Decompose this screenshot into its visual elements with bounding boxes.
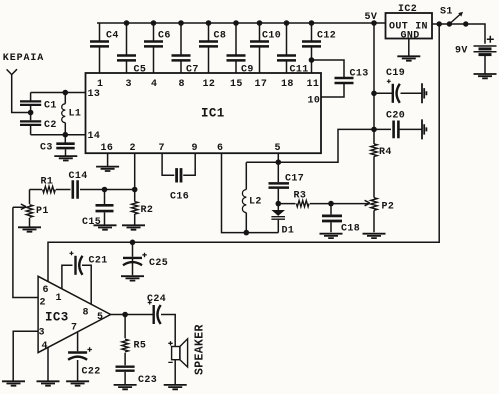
svg-text:C19: C19 [386,68,405,79]
wire pin14 [31,134,86,136]
wire battery to ground [484,55,486,74]
svg-text:6: 6 [217,143,223,154]
svg-text:R3: R3 [294,191,307,202]
capacitor C18 [322,216,342,221]
svg-text:10: 10 [308,96,321,107]
svg-text:3: 3 [126,79,132,90]
wire C15 stems [104,190,106,225]
wire D1 stems [277,204,279,233]
svg-text:KEPAIA: KEPAIA [3,53,44,64]
svg-text:8: 8 [179,79,185,90]
svg-text:R5: R5 [134,341,147,352]
svg-text:C5: C5 [134,64,147,75]
capacitor C13 [335,78,354,83]
wire IC3 output pin5 [111,315,176,347]
wire C18 stems [330,204,332,233]
svg-text:1: 1 [56,293,62,304]
wire P2 wiper arrow shaft [331,203,370,205]
capacitor C2 [20,121,41,125]
ground under P1 [18,227,41,231]
svg-text:GND: GND [401,31,420,42]
wire C13 branch pin10 [312,60,345,97]
wire pin5 node right up to C20 node [278,129,374,162]
wire P1 wiper down to IC3 pin2 [13,207,38,297]
svg-text:R4: R4 [379,147,392,158]
capacitor C11 [277,55,296,60]
svg-text:6: 6 [43,285,49,296]
capacitor C16 [177,168,181,182]
junction C19 [371,91,377,97]
svg-text:C8: C8 [214,31,227,42]
svg-text:12: 12 [203,79,216,90]
junction IC3 output R5 [122,312,128,318]
svg-text:16: 16 [101,143,114,154]
svg-text:C13: C13 [350,68,369,79]
svg-text:5V: 5V [365,12,378,23]
wire C10 branch pin17 [259,23,261,73]
junction L1 top [63,90,69,96]
svg-text:SPEAKER: SPEAKER [194,324,207,375]
resistor R4 [371,144,377,157]
junction rail C7 [178,20,184,26]
svg-text:IC3: IC3 [45,311,69,325]
IC2 regulator box [386,13,433,39]
resistor R2 [132,202,138,215]
svg-text:C15: C15 [82,217,101,228]
diode D1 [271,210,285,216]
svg-text:C3: C3 [40,143,53,154]
resistor R3 [296,200,309,206]
ground under C23 [114,385,137,389]
junction R3 C18 P2 [328,201,334,207]
junction rail C10 [257,20,263,26]
ground under R2 [122,225,145,229]
wire C12 branch pin11 [311,23,313,73]
svg-text:D1: D1 [282,226,295,237]
wire pin5 down [277,153,279,162]
wire C6 branch pin4 [153,23,155,73]
capacitor C15 [96,205,114,211]
wire IC3 pin4 to ground [47,347,49,381]
wire pin13 [31,92,86,94]
junction C25 supply [130,240,136,246]
junction rail C11 [284,20,290,26]
svg-text:C10: C10 [262,31,281,42]
svg-text:7: 7 [71,323,77,334]
op-amp IC3 triangle [38,276,111,352]
wire C3 stem [64,135,66,143]
wire C8 branch pin12 [208,23,210,73]
svg-text:C17: C17 [285,174,304,185]
wire C7 branch pin8 [180,23,182,73]
wire R2 stems [134,190,136,225]
wire P1 top and bottom [29,190,31,227]
capacitor C19 [387,79,400,103]
wire C9 branch pin15 [235,23,237,73]
svg-text:C9: C9 [241,64,254,75]
wire L1 stems [64,93,66,135]
junction rail C5 [124,20,130,26]
capacitor C5 [117,55,136,60]
capacitor C6 [144,41,163,46]
svg-text:3: 3 [39,328,45,339]
wire C17 stems [277,162,279,203]
wire IC2 to S1 and battery [432,24,485,44]
svg-text:C2: C2 [44,120,57,131]
wire C5 branch pin3 [126,23,128,73]
svg-text:C22: C22 [82,367,101,378]
junction pin5 L2 [276,159,282,165]
wire pin2 down [134,153,136,189]
svg-text:P2: P2 [382,202,395,213]
capacitor C7 [172,55,191,60]
capacitor C24 [148,301,161,325]
wire top supply rail [97,22,386,24]
svg-text:R1: R1 [41,177,54,188]
junction pin11 C13 [309,57,315,63]
wire IC3 pin3 stub to ground [13,331,38,381]
ground right of C20 [422,119,426,139]
junction rail C9 [233,20,239,26]
node 5V [371,20,377,26]
svg-text:C25: C25 [149,258,168,269]
svg-text:C4: C4 [106,31,119,42]
capacitor C23 [116,367,135,371]
capacitor C10 [250,41,269,46]
ground under C18 [320,234,343,238]
capacitor C17 [269,183,290,187]
wire IC3 pin1 to C21 loop [62,265,91,304]
svg-text:2: 2 [40,298,46,309]
junction L2 bottom [244,230,250,236]
svg-text:2: 2 [130,143,136,154]
wire antenna mast [7,69,31,112]
ground under battery [474,74,497,78]
svg-text:C12: C12 [317,31,336,42]
capacitor C25 [123,253,147,265]
wire C11 branch pin18 [286,23,288,73]
ground under speaker [164,385,187,389]
capacitor C3 [56,144,74,156]
junction rail C6 [151,20,157,26]
ground under IC2 [397,56,420,60]
svg-text:C18: C18 [341,224,360,235]
wire C23 stem [124,372,126,385]
resistor R5 [122,339,128,352]
capacitor C20 [394,121,399,139]
svg-text:S1: S1 [440,7,453,18]
junction rail C12 [309,20,315,26]
svg-text:4: 4 [151,79,157,90]
ground under C25 [121,276,144,280]
svg-text:18: 18 [281,79,294,90]
capacitor C4 [90,41,109,46]
wire pin5 node to L2 top [246,161,278,163]
ground under C15 [94,225,117,229]
potentiometer P2 [371,198,377,211]
ground under C22 [66,381,89,385]
wire C16 loop pins 7 9 [162,153,195,175]
svg-text:14: 14 [88,131,101,142]
potentiometer P1 [26,205,32,218]
svg-text:C6: C6 [158,31,171,42]
svg-text:R2: R2 [141,205,154,216]
junction C17 D1 R3 [276,201,282,207]
switch S1 [437,21,442,26]
wire C19 leads [374,92,422,94]
capacitor C9 [227,55,246,60]
svg-text:C1: C1 [44,101,57,112]
junction rail C8 [206,20,212,26]
ground under C3 [54,156,77,160]
wire IC3 pin7 to C22 [77,332,79,381]
svg-text:5: 5 [275,143,281,154]
svg-text:4: 4 [42,341,48,352]
svg-text:7: 7 [159,143,165,154]
capacitor C14 [73,180,78,199]
wire pin16 ground stem [107,153,109,166]
wire pin6 down and bottom RF wire [222,153,279,232]
wire L2 branch [245,162,247,232]
wire R5 stems [124,315,126,366]
IC1 box [86,73,322,153]
wire speaker to ground [174,360,176,385]
ground under IC3 pin3 [2,381,25,385]
junction pin2 R2 [132,187,138,193]
svg-text:IC2: IC2 [398,4,417,15]
junction C15 [102,187,108,193]
svg-text:C16: C16 [170,192,189,203]
capacitor C21 [70,251,83,275]
svg-text:C20: C20 [386,111,405,122]
capacitor C1 [20,101,41,105]
resistor R1 [43,186,56,192]
inductor L2 [242,190,246,213]
svg-text:15: 15 [230,79,243,90]
capacitor C8 [199,41,218,46]
junction antenna C1 C2 [28,110,34,116]
svg-text:11: 11 [307,79,320,90]
svg-text:C21: C21 [89,256,108,267]
svg-text:9V: 9V [455,46,468,57]
svg-text:L2: L2 [249,197,262,208]
wire C25 stems [132,242,134,275]
wire right power rail down to audio section [48,24,439,282]
svg-text:17: 17 [255,79,268,90]
svg-text:IC1: IC1 [201,107,225,121]
wire signal row R1 C14 [30,189,135,191]
junction L1 bottom C3 [63,132,69,138]
svg-text:C14: C14 [69,171,88,182]
svg-text:C23: C23 [138,375,157,386]
svg-text:8: 8 [83,308,89,319]
battery 9V [474,36,497,55]
wire IC2 ground stem [408,39,410,57]
svg-text:13: 13 [88,89,101,100]
wire C1 C2 chain [30,93,32,135]
svg-text:P1: P1 [36,206,49,217]
ground right of C19 [422,83,426,103]
capacitor C22 [68,347,92,360]
svg-text:9: 9 [192,143,198,154]
capacitor C12 [302,41,321,46]
svg-text:5: 5 [97,312,103,323]
wire 5V vertical rail [373,23,375,232]
ground under pin16 [96,167,119,171]
speaker [172,347,180,360]
junction C20 R4 [371,127,377,133]
svg-text:L1: L1 [69,109,82,120]
ground under IC3 pin4 [37,381,60,385]
svg-text:C11: C11 [290,64,309,75]
wire C20 leads [374,128,422,130]
wire C4 branch pin1 [99,23,101,73]
ground under P2 [363,234,386,238]
inductor L1 [62,104,66,123]
wire R3 leads [278,203,331,205]
svg-text:C7: C7 [186,64,199,75]
svg-text:C24: C24 [147,294,166,305]
